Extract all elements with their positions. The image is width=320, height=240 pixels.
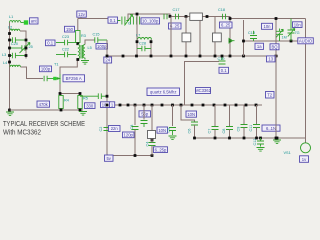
svg-text:6..25: 6..25 <box>170 24 180 29</box>
crystal quartz chain <box>146 105 156 156</box>
capacitor osc chain 2 <box>137 17 143 25</box>
svg-text:C12: C12 <box>253 139 257 146</box>
transistor Q1 BF256 <box>53 74 60 84</box>
svg-text:R4: R4 <box>64 99 69 103</box>
svg-text:C15: C15 <box>93 33 100 37</box>
svg-text:0.1: 0.1 <box>221 68 227 73</box>
diode pin marker <box>229 39 235 43</box>
label pin 5 <box>105 155 114 161</box>
potentiometer 1M <box>276 29 287 42</box>
label quartz 6.5Mhz <box>147 88 180 96</box>
crystal Q1 <box>190 13 203 20</box>
resistor R4 <box>59 94 69 111</box>
svg-text:C3: C3 <box>130 125 134 130</box>
svg-text:MC3362: MC3362 <box>195 88 211 93</box>
label 10..100p <box>141 18 160 24</box>
svg-text:150: 150 <box>66 27 74 32</box>
label 120p <box>123 132 135 138</box>
wire C19 branch <box>185 62 220 106</box>
wire left tank rail <box>9 23 11 111</box>
svg-text:VS1: VS1 <box>284 151 291 155</box>
capacitor 120p riser <box>130 105 139 156</box>
svg-text:6..25p: 6..25p <box>155 147 167 152</box>
capacitor 22n on rail <box>99 127 111 132</box>
svg-text:AUDIO: AUDIO <box>299 39 313 44</box>
junction bottom left wire <box>134 154 137 157</box>
wire filter lead <box>170 17 230 57</box>
svg-text:100p: 100p <box>97 44 107 49</box>
trimmer capacitor <box>10 43 33 54</box>
svg-text:0.1: 0.1 <box>47 41 53 46</box>
capacitor osc chain <box>118 17 134 25</box>
junction dots tank <box>8 32 11 35</box>
capacitor C5 <box>167 105 177 140</box>
label 0.1 top <box>108 17 118 23</box>
capacitor 10n decouple <box>80 93 107 99</box>
wire top bus right <box>230 18 306 20</box>
label MC3362 <box>195 88 211 94</box>
junction R3 bottom <box>76 42 79 45</box>
label 100p C15 <box>96 44 108 50</box>
wire top supply bus <box>78 18 117 20</box>
svg-text:1M: 1M <box>282 36 287 40</box>
capacitor C13 <box>248 31 257 41</box>
ground T2 <box>273 140 281 144</box>
wire right tank rail <box>20 31 26 59</box>
label 24 <box>104 57 112 63</box>
capacitor C19 <box>218 56 226 64</box>
capacitor C6 <box>181 105 198 138</box>
label BF256 A <box>63 75 85 82</box>
wire L5 top to C15 <box>85 40 95 45</box>
capacitor filter input <box>164 14 167 20</box>
svg-text:7G: 7G <box>295 31 300 35</box>
svg-text:10n: 10n <box>264 24 272 29</box>
svg-text:C6: C6 <box>188 129 192 134</box>
wire source down <box>59 84 61 94</box>
capacitor C21 <box>2 53 26 59</box>
svg-text:6..1N: 6..1N <box>266 126 276 131</box>
svg-text:R5: R5 <box>83 97 88 101</box>
svg-text:C7: C7 <box>208 129 212 134</box>
label 13 <box>267 56 276 62</box>
svg-text:56p: 56p <box>141 112 149 117</box>
capacitor C23 <box>56 35 76 45</box>
inductor L5 secondary <box>83 45 92 59</box>
ground mid <box>79 112 87 116</box>
svg-text:10..100p: 10..100p <box>142 19 159 24</box>
label 470k <box>37 101 50 107</box>
wire source bus <box>60 93 80 95</box>
wire riser x171 <box>170 17 172 57</box>
svg-text:R3: R3 <box>81 34 86 38</box>
svg-text:C23: C23 <box>62 35 69 39</box>
label 10n <box>101 102 111 108</box>
svg-text:C28: C28 <box>139 42 146 46</box>
svg-text:10N: 10N <box>158 128 166 133</box>
svg-text:10n: 10n <box>294 22 302 27</box>
svg-text:0.1: 0.1 <box>110 18 116 23</box>
svg-text:C9: C9 <box>237 127 241 132</box>
wire T2 riser <box>275 19 277 139</box>
capacitor C9 <box>237 105 248 138</box>
junction lower bus dots <box>276 137 279 140</box>
capacitor C7 <box>208 105 219 138</box>
inductor L1 <box>9 15 21 23</box>
junction left rail bottom <box>8 109 11 112</box>
wire L7 left rail <box>136 36 138 56</box>
svg-text:L1: L1 <box>9 15 13 19</box>
label 10N C6 <box>186 111 197 117</box>
wire L4 to gate cap <box>21 67 44 79</box>
svg-text:C22: C22 <box>62 48 69 52</box>
label 1n <box>255 43 264 49</box>
junction C6 bottom <box>193 137 196 140</box>
junction T2 riser <box>275 17 278 20</box>
capacitor C12 <box>253 137 265 152</box>
wire right edge rail <box>305 19 307 143</box>
wire L7 right rail <box>150 40 152 57</box>
label 6..1N <box>262 125 280 131</box>
svg-text:22n: 22n <box>111 126 119 131</box>
wire ant stub <box>21 22 24 24</box>
svg-text:100p: 100p <box>41 67 51 72</box>
wire osc high line <box>128 14 170 21</box>
capacitor C28 <box>137 42 151 52</box>
svg-text:BQ: BQ <box>271 45 278 50</box>
wire bottom left run <box>107 155 152 156</box>
svg-text:10N: 10N <box>187 112 195 117</box>
label 100p gate <box>40 66 52 72</box>
svg-text:1a: 1a <box>257 44 262 49</box>
junction crystal right <box>206 15 209 18</box>
potentiometer right <box>288 19 300 42</box>
svg-text:T2: T2 <box>267 93 273 98</box>
junction dots source bus <box>59 92 62 95</box>
svg-text:G: G <box>128 22 131 26</box>
label 1v <box>300 156 309 163</box>
junction mid bus left <box>106 55 109 58</box>
wire 12v stub <box>80 17 82 18</box>
voltage source VS1 <box>284 138 311 155</box>
svg-text:L5: L5 <box>88 46 92 50</box>
svg-text:ant: ant <box>31 19 38 24</box>
svg-text:120p: 120p <box>124 133 134 138</box>
label 330 <box>85 103 96 109</box>
svg-text:L3: L3 <box>2 53 6 57</box>
label AUDIO <box>298 38 314 44</box>
junction T1 bottom <box>76 58 79 61</box>
svg-text:C17: C17 <box>173 8 180 12</box>
label 12v <box>77 11 87 17</box>
label 8ohm <box>270 44 279 50</box>
svg-text:BF256 A: BF256 A <box>66 76 82 81</box>
junction osc riser <box>136 13 139 16</box>
junction L7 <box>136 40 139 43</box>
label 0.1 C19 <box>219 67 229 73</box>
svg-text:C8: C8 <box>222 129 226 134</box>
label 6..25 right <box>220 22 233 28</box>
svg-text:T1: T1 <box>54 63 58 67</box>
label 10n left <box>262 23 273 29</box>
junction C19 <box>221 55 224 58</box>
junction crystal left <box>185 15 188 18</box>
label ant <box>30 18 39 24</box>
svg-text:C19: C19 <box>218 57 225 61</box>
junction filter elbow <box>169 15 172 18</box>
capacitor C15 <box>93 33 108 43</box>
wire riser x215 <box>214 17 216 57</box>
junction mid bus dots <box>170 55 173 58</box>
junction audio <box>242 40 245 43</box>
inductor L7 <box>136 34 152 40</box>
wire lower ground bus <box>195 137 306 139</box>
wire osc riser <box>136 14 138 36</box>
label T2 <box>266 92 275 99</box>
svg-text:With MC3362: With MC3362 <box>3 128 41 137</box>
svg-text:24: 24 <box>105 58 110 63</box>
resistor R3 <box>76 19 86 45</box>
capacitor C22 <box>56 48 77 58</box>
wire main pin bus <box>107 104 262 106</box>
trimmer arrow osc <box>125 15 133 26</box>
transformer T1 primary <box>54 45 82 67</box>
svg-text:470k: 470k <box>39 102 49 107</box>
capacitor C8 <box>222 105 233 138</box>
svg-text:C11: C11 <box>249 125 253 132</box>
svg-text:13: 13 <box>268 57 273 62</box>
label pin 1 <box>110 102 115 108</box>
svg-text:6..25: 6..25 <box>221 23 231 28</box>
resistor R5 <box>78 94 88 111</box>
capacitor C11 <box>249 105 260 138</box>
svg-text:25: 25 <box>29 45 33 49</box>
svg-text:12v: 12v <box>78 12 86 17</box>
inductor L4 <box>3 61 20 67</box>
svg-text:L4: L4 <box>3 61 7 65</box>
label 10N crystal <box>157 127 168 133</box>
trimmer square right <box>213 33 222 42</box>
label 6..25 left <box>169 23 182 29</box>
junction rail x107 <box>106 95 109 98</box>
ground left rail <box>6 112 14 116</box>
capacitor C20 <box>10 37 27 46</box>
svg-text:quartz 6.5Mhz: quartz 6.5Mhz <box>150 90 177 95</box>
wire riser x200 <box>199 21 201 57</box>
capacitor C17 <box>173 8 180 19</box>
label 150 <box>65 26 75 32</box>
label 22n <box>109 126 121 132</box>
label 10n right <box>293 22 303 28</box>
svg-text:330: 330 <box>86 103 94 108</box>
junction x230 <box>229 17 232 20</box>
wire riser x185.5 <box>185 17 187 57</box>
wire drain to T1 <box>60 60 77 75</box>
label 56p <box>139 111 151 117</box>
capacitor 56p <box>141 105 148 127</box>
label 0.1 left <box>46 40 56 46</box>
ground under L5 <box>81 58 89 64</box>
inductor L2 <box>8 26 20 32</box>
label 6..25p <box>154 147 168 153</box>
svg-text:C2: C2 <box>99 127 103 132</box>
wire IF rail x107 <box>106 40 108 155</box>
wire resistor bottom bus <box>10 109 84 111</box>
junction main bus dots <box>119 104 122 107</box>
junction dots resistor bottoms <box>60 109 63 112</box>
wire mid bus <box>107 55 278 57</box>
capacitor gate 100p <box>44 76 53 82</box>
pad antenna <box>24 20 28 24</box>
svg-text:C18: C18 <box>218 8 225 12</box>
capacitor C18 <box>218 8 226 19</box>
wire audio line <box>244 20 299 56</box>
trimmer square left <box>182 33 191 42</box>
